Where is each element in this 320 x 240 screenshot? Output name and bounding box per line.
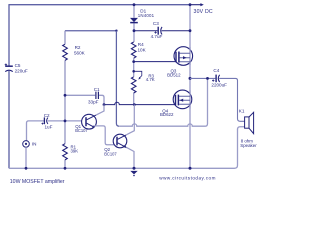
svg-text:39K: 39K [71,148,79,153]
wire C4 line y=78.4 [190,78,245,121]
wire 30V arrow stub [190,4,201,6]
wire bottom ground rail [9,129,238,169]
transistor Q1 [82,114,97,129]
resistor R1 [63,144,68,160]
node junction gate line/R3-Q2 [133,103,136,106]
wire C1 line y=95.3 [65,95,104,104]
node junction Q2 emitter/ground rail [133,167,136,170]
node junction feedback tap [206,77,209,80]
source IN [23,141,30,148]
transistor Q2 [113,134,127,148]
mosfet Q3 [174,47,193,66]
svg-text:C3: C3 [153,21,159,26]
ground symbol [130,171,137,175]
wire IN riser and C2 base line y=120.9 [27,121,82,141]
node junction R1/ground rail [64,167,67,170]
svg-text:BC107: BC107 [104,152,117,157]
svg-text:www.circuitstoday.com: www.circuitstoday.com [159,176,216,181]
diode D1 [130,18,138,22]
svg-text:C1: C1 [94,87,100,92]
svg-text:10W MOSFET amplifier: 10W MOSFET amplifier [10,179,65,185]
svg-text:33pF: 33pF [88,99,99,104]
node junction top rail at x=134 [133,3,136,6]
node junction C1/Q1 collector [103,103,106,106]
node 30V DC arrowhead [200,3,203,6]
resistor R2 [63,44,68,60]
wire Q1 emitter to Q2 base [94,126,116,145]
wire Q2 collector up [126,105,134,135]
svg-text:C4: C4 [213,68,219,73]
svg-text:560K: 560K [74,50,86,55]
svg-text:4.7uF: 4.7uF [151,34,163,39]
label leader R3 [134,71,142,78]
svg-text:1N4001: 1N4001 [138,13,155,18]
node junction R3 top leader [132,70,135,73]
svg-text:R2: R2 [75,45,81,50]
resistor R4 [131,42,136,58]
capacitor C1 [96,92,99,99]
speaker K1 [245,117,249,128]
svg-text:BC107: BC107 [75,128,88,133]
node corner dot feedback [115,30,117,32]
wire top 30V rail [9,4,190,6]
wire middle rail x=190 (Q3/Q4 chain) [189,5,191,169]
wire feedback horizontal y=126.2 with hops [119,78,207,126]
node junction IN/ground rail [25,167,28,170]
wire Q1 collector vertical [96,105,104,116]
svg-text:1uF: 1uF [45,125,53,130]
node junction base node [64,120,67,123]
svg-text:BD512: BD512 [167,73,181,78]
svg-text:4.7K: 4.7K [146,77,155,82]
wire feedback vertical x=116.4 [116,31,119,127]
svg-text:C2: C2 [44,113,50,118]
wire IN to ground rail [25,147,27,168]
wire left border upper (to C5) [8,4,10,66]
svg-text:BD622: BD622 [160,112,174,117]
wire D1/R4/R3 vertical chain x=134 [133,5,135,105]
wire gate line Q3 y=61.6 [134,61,176,63]
capacitor C3 [157,27,159,35]
resistor R3 [131,77,136,93]
svg-text:Speaker: Speaker [240,143,257,148]
svg-text:C5: C5 [15,63,21,68]
node junction top rail at x=190 [189,3,192,6]
node junction R4/gate Q3 [132,60,135,63]
capacitor C5 [5,65,13,67]
svg-text:10K: 10K [138,48,147,53]
wire C3 line y=30.7 [134,30,190,32]
mosfet Q4 [173,90,192,109]
svg-text:R4: R4 [138,42,144,47]
svg-text:IN: IN [32,142,37,147]
wire left border lower (C5 to ground rail) [8,71,10,168]
wire gate line Q4 y=104.6 with hop [104,102,176,104]
node junction C1 left [64,94,67,97]
svg-text:220uF: 220uF [15,69,28,74]
node junction Q4 source/ground rail [189,167,192,170]
capacitor C2 [43,117,45,124]
node junction C3/rail [189,29,192,32]
svg-text:K1: K1 [239,109,245,114]
wire Q2 emitter down [126,147,134,168]
wire speaker bottom stub [238,127,245,130]
capacitor C4 [215,75,217,83]
wire R2 feedback box top y=30.7 [65,30,116,32]
svg-text:30V DC: 30V DC [194,9,213,15]
wire R2 left vertical chain x=65 [64,31,66,169]
svg-text:2200uF: 2200uF [211,82,227,87]
node output junction [189,77,192,80]
node junction D1/C3/R4 [133,29,136,32]
